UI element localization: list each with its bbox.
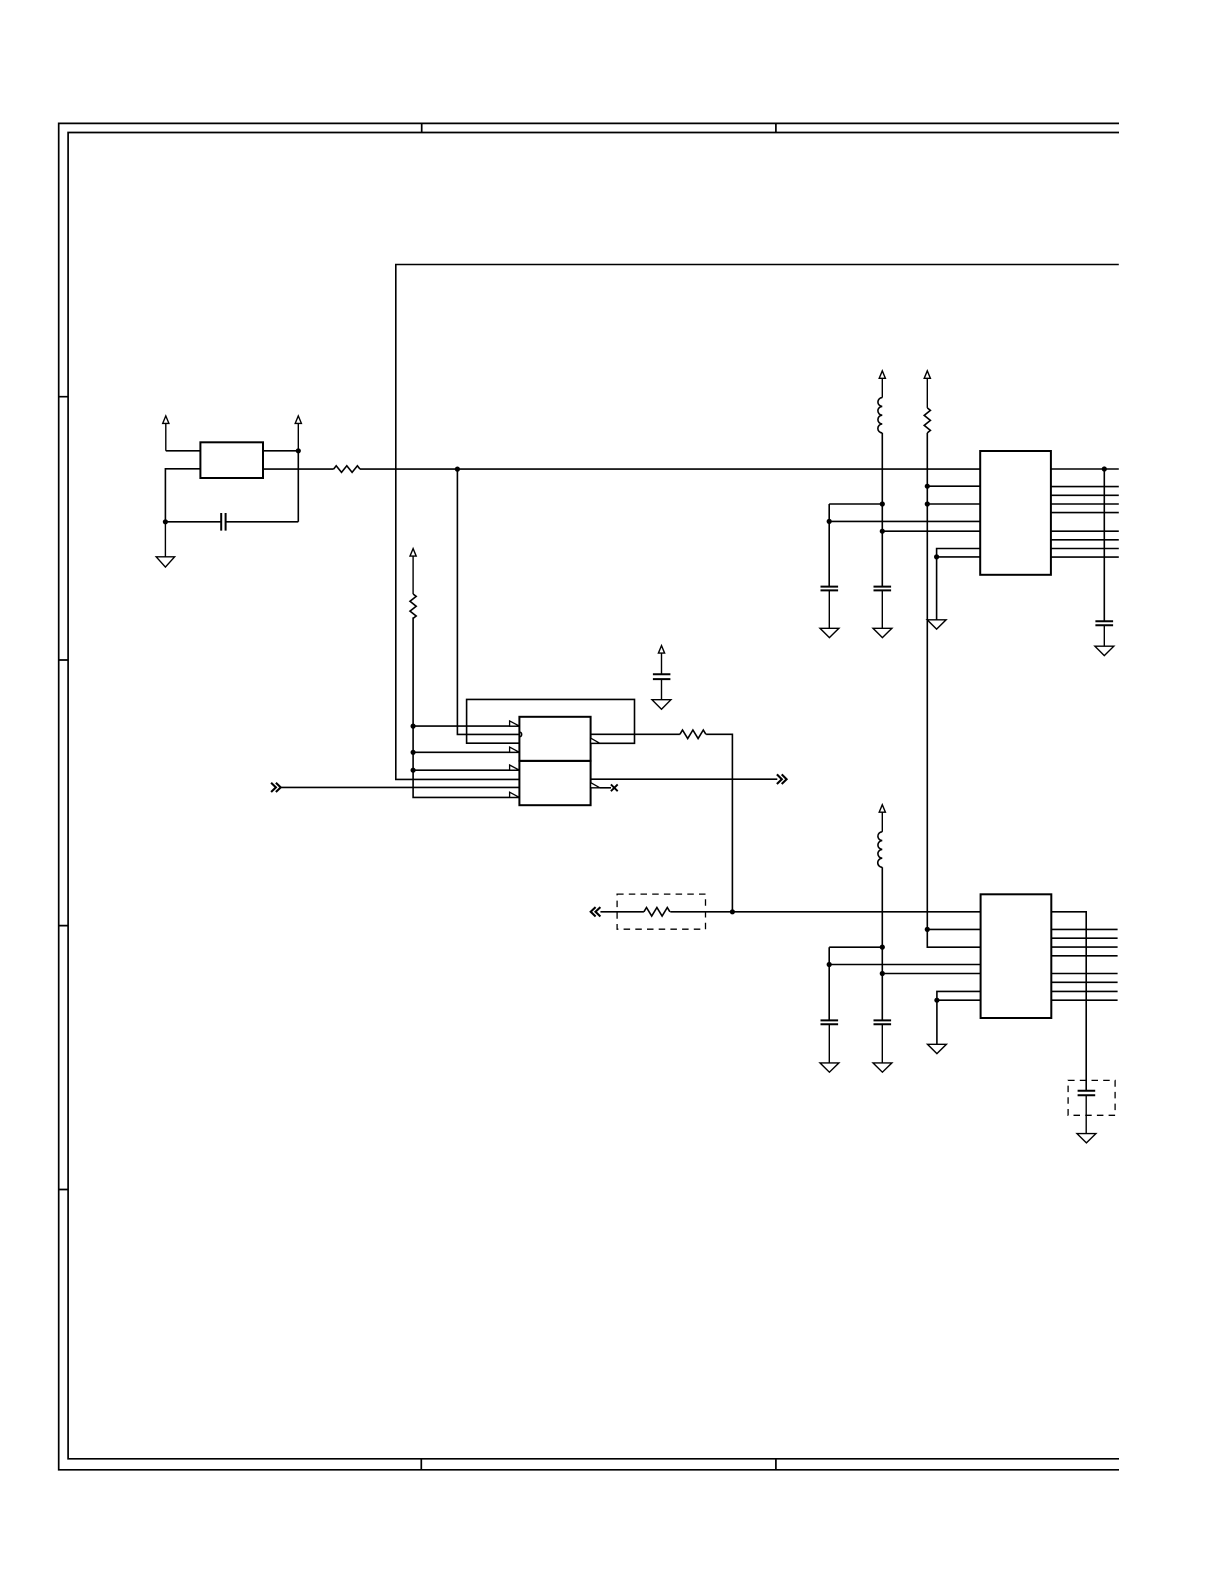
power flag VCC2 (oscillator right): [295, 416, 301, 451]
capacitor C5: [874, 587, 892, 591]
wire oscillator pin 1 (supply, left top): [166, 450, 201, 452]
wire oscillator pin 4 to VCC2: [263, 450, 298, 452]
wire input chevron to U2 pin 3: [280, 786, 519, 788]
capacitor C1: [221, 513, 225, 531]
wire U4 right pin 13: [1051, 946, 1117, 948]
resistor R3: [680, 730, 706, 739]
wire U3 right pin 13: [1051, 503, 1119, 505]
wire L2 rail to U4 pin 5: [882, 973, 980, 975]
wire L2 down to bypass cap C6: [881, 867, 883, 1020]
wire to U2 pin 1: [413, 769, 519, 771]
pin marker U2 pin 4: [510, 792, 520, 797]
buffer U1: [519, 717, 590, 761]
ground GND5: [927, 620, 946, 629]
capacitor C8 (dnp): [1078, 1091, 1096, 1096]
wire oscillator output to resistor R1: [263, 468, 334, 470]
pin marker U2 pin 1: [510, 765, 520, 770]
wire U3 pin 3 net segment (cap leg to L1 rail): [829, 504, 882, 521]
wire to U3 pin 2: [927, 485, 980, 487]
wire R4 rail to U4 pin 2: [927, 928, 980, 930]
pin marker U2 output pin 6: [591, 783, 600, 788]
junction node L2 rail / U4 pin 3 net: [880, 945, 885, 950]
wire U3 right pin 15: [1051, 486, 1119, 488]
power flag VCC3 (pull-up): [410, 549, 416, 594]
ground GND7: [873, 1024, 892, 1072]
junction node L1 rail / U3 pin 3 net: [880, 501, 885, 506]
input connector chevron (mid left): [271, 783, 281, 792]
junction node at ground leg: [163, 519, 168, 524]
wire top bus (corner at x=395.8) down to buffer U2 input: [396, 265, 1119, 780]
junction node ground pair / U4 pin 7: [934, 998, 939, 1003]
wire U3 right pin 12: [1051, 512, 1119, 514]
capacitor C4: [821, 587, 839, 591]
wire C4 leg down: [828, 521, 830, 586]
wire U4 pin 3 net segment (cap leg to L2 rail): [829, 947, 882, 964]
wire L1 down to bypass cap C5: [881, 433, 883, 587]
capacitor C2: [653, 674, 671, 679]
power flag VCC6 (resistor feed): [924, 371, 930, 408]
wire capacitor C1 to VCC2 leg: [226, 521, 299, 523]
junction node R4 rail / U4 pin 2: [925, 927, 930, 932]
capacitor C6: [874, 1020, 892, 1024]
ground GND10: [1077, 1095, 1096, 1143]
ground GND9: [928, 1044, 947, 1053]
capacitor C7: [1095, 621, 1113, 625]
wire U2 output pin 5 to clock out connector: [591, 778, 778, 780]
ground GND1: [156, 522, 174, 567]
wire U4 right pin 14: [1051, 937, 1117, 939]
pin marker U1 pin 4: [510, 747, 520, 752]
pin marker U1 output pin 6: [591, 738, 600, 743]
wire R4 rail down to lower IC U4: [927, 433, 980, 947]
ground GND8: [820, 1024, 839, 1072]
power flag VCC5 (inductor feed): [879, 371, 885, 398]
wire U3 pin 7: [937, 556, 981, 558]
junction node R4 rail / U3 pin 2: [925, 484, 930, 489]
feedback loop wire U1 output to U1 pin 3: [467, 699, 635, 743]
wire ground leg to capacitor C1: [165, 521, 221, 523]
inductor L2: [878, 832, 883, 867]
junction node pin 16 / cap C7 leg: [1102, 466, 1107, 471]
wire U4 pin 7: [937, 999, 981, 1001]
wire U3 right pin 14: [1051, 494, 1119, 496]
junction node pull-up / U2 pin 1: [411, 768, 416, 773]
wire U4 right pin 8: [1051, 999, 1117, 1001]
wire U4 right pin 15: [1051, 928, 1117, 930]
wire clock branch down to buffer U1 input pin 2: [457, 469, 519, 734]
junction node R3 leg / U4 pin 1 net: [730, 909, 735, 914]
wire R3 to lower section: [706, 734, 732, 912]
wire U4 right pin 11: [1051, 973, 1117, 975]
power flag VCC4 (bypass cap C2): [658, 646, 664, 675]
junction node clock net / buffer branch: [455, 467, 460, 472]
border frame: [59, 123, 1119, 1469]
wire VCC2 node down to bypass cap: [297, 451, 299, 522]
wire L1 rail to U3 pin 5: [882, 530, 980, 532]
resistor R2 (pull-up): [410, 594, 416, 618]
wire R4 rail to U3 pin 3: [927, 503, 980, 505]
wire C3 leg down: [828, 965, 830, 1021]
ground GND3: [873, 590, 892, 637]
ground GND4: [820, 590, 839, 637]
resistor R1: [334, 466, 360, 473]
wire U3 pin 6 ground pair: [937, 549, 981, 620]
IC U3: [980, 451, 1051, 575]
wire chevron to resistor R5: [600, 911, 644, 913]
wire pull-up rail down to U2 pin: [413, 617, 519, 797]
resistor R5 (dnp): [644, 908, 670, 917]
inversion bubble at U1 pin 2: [520, 732, 522, 737]
no-connect x mark: [611, 784, 618, 791]
wire U3 right pin 16: [1051, 468, 1119, 470]
junction node pull-up / U1 pin 4: [411, 750, 416, 755]
wire U4 right pin 9: [1051, 990, 1117, 992]
wire U4 right pin 12: [1051, 955, 1117, 957]
wire U3 pin 4: [829, 520, 980, 522]
dnp dashed box around C8: [1068, 1080, 1115, 1115]
wire U3 right pin 10: [1051, 539, 1119, 541]
junction node pull-up / U1 pin 1: [411, 724, 416, 729]
inductor L1: [878, 398, 882, 433]
wire U4 pin 4: [829, 964, 980, 966]
wire R5 to U4 pin 1: [670, 911, 980, 913]
wire to U1 pin 1: [413, 725, 519, 727]
junction node ground pair / U3 pin 7: [934, 554, 939, 559]
wire U3 right pin 8: [1051, 556, 1119, 558]
ground GND6: [1095, 625, 1114, 655]
wire U1 output pin 5 to resistor R3: [591, 733, 680, 735]
wire U3 right pin 11: [1051, 530, 1119, 532]
input connector chevron (lower left): [591, 907, 601, 916]
resistor R4: [924, 408, 930, 433]
ground GND2: [652, 679, 671, 709]
wire U4 right pin 10: [1051, 981, 1117, 983]
wire oscillator pin 2 (gnd, left bottom): [165, 469, 200, 522]
output connector chevron (clock out): [777, 774, 787, 784]
power flag VCC7 (inductor L2 feed): [879, 805, 885, 832]
IC U4: [981, 894, 1052, 1018]
junction node at VCC2 stem: [296, 448, 301, 453]
wire clock net to IC U3 pin 1: [360, 468, 980, 470]
dnp dashed box around R5: [617, 894, 705, 929]
junction node R4 rail / U3 pin 3 net: [925, 501, 930, 506]
wire U3 right pin 9: [1051, 548, 1119, 550]
oscillator X1: [200, 442, 263, 478]
buffer U2: [519, 761, 590, 805]
wire U4 pin 6 ground pair: [937, 991, 981, 1044]
wire U2 pin 6 stub: [600, 787, 611, 789]
junction node C4 leg / U3 pin 4: [827, 519, 832, 524]
capacitor C3: [821, 1020, 839, 1024]
junction node L2 rail / U4 pin 5: [880, 971, 885, 976]
wire to U1 pin 4: [413, 751, 519, 753]
wire C7 leg down: [1103, 469, 1105, 621]
junction node L1 rail / U3 pin 5: [880, 529, 885, 534]
junction node C3 leg / U4 pin 4: [827, 962, 832, 967]
wire U4 right pin 16 to cap C8: [1051, 912, 1086, 1091]
pin marker U1 pin 1: [510, 721, 520, 726]
power flag VCC1 (oscillator left): [163, 416, 169, 451]
